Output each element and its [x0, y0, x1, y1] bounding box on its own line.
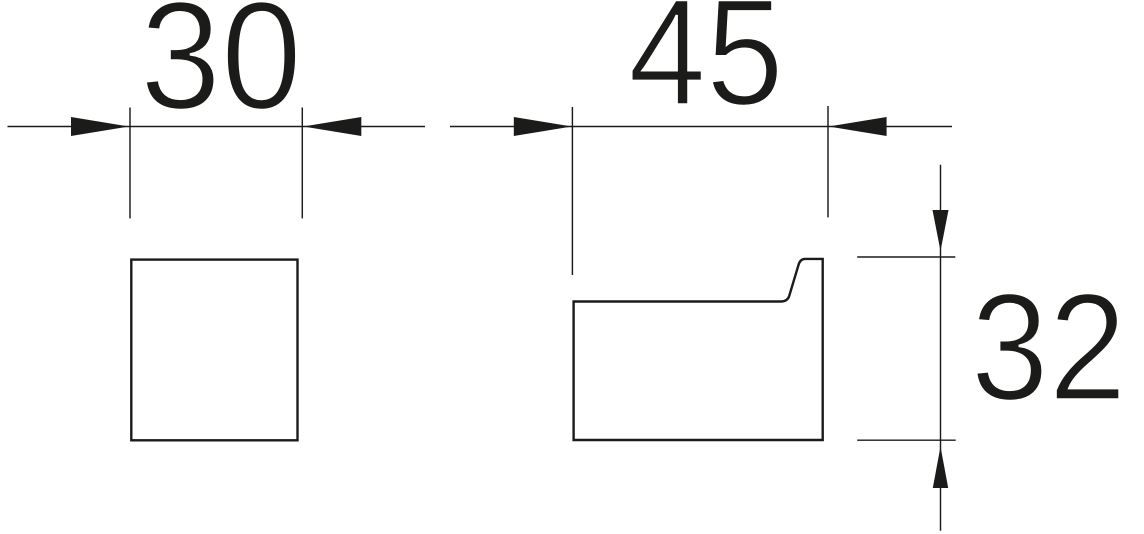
svg-text:30: 30	[140, 0, 302, 141]
svg-text:32: 32	[971, 263, 1127, 433]
svg-text:45: 45	[628, 0, 784, 137]
